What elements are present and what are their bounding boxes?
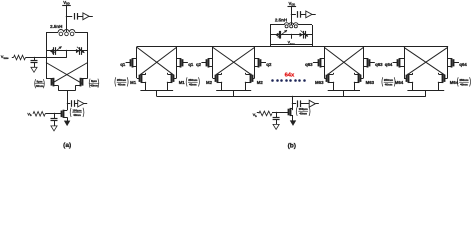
wire V_DD to tank center tap (a) [66, 5, 68, 32]
wire drain column M2 [212, 47, 214, 78]
transistor Q_q63R coupling (gate q63) [369, 59, 371, 66]
ground V_tune bypass (a) [31, 67, 37, 72]
svg-text:q64: q64 [385, 62, 393, 67]
wire cap to lower buffer (a) [74, 103, 78, 105]
transistor Q_q1R coupling (gate q1) [182, 59, 184, 66]
wire to lower coupling cap (b) [293, 103, 296, 105]
wire tail gate (b) [272, 112, 288, 114]
wire drain column M63 [324, 47, 326, 78]
transistor Q_q2L coupling (gate q2) [206, 59, 208, 66]
varactor CV2 (b) [300, 33, 303, 37]
wire lower buffer output (b) [315, 103, 318, 105]
svg-text:8μm: 8μm [91, 79, 97, 83]
wire tank left edge (b) [270, 25, 272, 44]
wire M63R source down [354, 82, 356, 91]
svg-text:M63: M63 [315, 80, 324, 85]
wire M64R source down [438, 82, 440, 91]
ground tail source (b) [290, 121, 295, 126]
wire cross-couple diagonal M64 R-to-L [407, 47, 448, 75]
varactor CV1 (a) [50, 49, 53, 53]
wire M2R drain to cross wire [245, 73, 247, 75]
transistor M64R cross-coupled [444, 75, 446, 82]
wire M64L source down [412, 82, 414, 91]
transistor Q_q2R coupling (gate q2) [260, 59, 262, 66]
wire common source down to tail (a) [67, 91, 69, 111]
wire cross-couple diagonal M63 L-to-R [324, 47, 361, 75]
wire drain column M64 [404, 47, 406, 78]
wire to output cap (b) [292, 14, 296, 16]
svg-text:250nm: 250nm [384, 78, 394, 82]
label size 8um/40nm left (a) [34, 79, 37, 88]
label size 250nm/40nm M1 right [185, 77, 188, 86]
transistor M63L cross-coupled [326, 75, 328, 82]
transistor Q_q64R coupling (gate q64) [453, 59, 455, 66]
capacitor lower coupling (a) [71, 100, 73, 107]
wire M1R drain to cross wire [167, 73, 169, 75]
svg-text:250nm: 250nm [188, 78, 198, 82]
svg-text:2.5nH: 2.5nH [275, 17, 287, 22]
capacitor V_b bypass (a) [54, 113, 56, 115]
wire source bus pair M63 [328, 90, 360, 92]
wire drain column M63' [363, 47, 365, 78]
wire to lower coupling cap (a) [67, 103, 70, 105]
wire buffer output (b) [312, 14, 316, 16]
wire tank right rail (a) [87, 32, 89, 78]
svg-text:(b): (b) [288, 143, 296, 150]
wire pair M64 bus to tail bus [425, 91, 427, 97]
wire M1L drain to cross wire [145, 73, 147, 75]
label size 250nm/40nm M1 left [114, 77, 117, 86]
wire V_DD down (b) [291, 7, 293, 25]
wire varactor row (a) [46, 50, 88, 52]
wire varactor row (b) [270, 34, 312, 36]
wire cap to buffer (a) [78, 16, 83, 18]
svg-text:2.5nH: 2.5nH [50, 24, 62, 29]
wire tank left rail (a) [46, 32, 48, 78]
wire M1L source down [145, 82, 147, 91]
svg-text:q1: q1 [188, 62, 194, 67]
wire drain column M1 [136, 47, 138, 78]
op-amp lower buffer (b) [309, 100, 315, 107]
wire M63L drain to cross wire [333, 73, 335, 75]
svg-text:q64: q64 [459, 62, 467, 67]
wire tank bottom to rail right (b) [312, 44, 314, 47]
svg-text:250nm: 250nm [459, 78, 469, 82]
transistor Q_q63L coupling (gate q63) [318, 59, 320, 66]
op-amp output buffer (b) [306, 11, 312, 18]
svg-text:40nm: 40nm [385, 82, 393, 86]
resistor R_b (a) [33, 112, 45, 117]
svg-text:M2: M2 [257, 80, 264, 85]
svg-text:40nm: 40nm [73, 113, 81, 117]
wire pair M1 bus to tail bus [156, 91, 158, 97]
transistor Q_q64L coupling (gate q64) [397, 59, 399, 66]
wire drain column M64' [447, 47, 449, 78]
resistor R_tune (a) [14, 55, 26, 60]
transistor MA1 left of pair (a) [51, 79, 53, 86]
wire cross-couple diagonal left-to-right (a) [46, 63, 82, 84]
op-amp output buffer (a) [83, 13, 89, 20]
wire M64R drain to cross wire [438, 73, 440, 75]
capacitor lower coupling (b) [297, 100, 299, 107]
capacitor V_b bypass (b) [276, 112, 278, 114]
svg-text:q1: q1 [120, 62, 126, 67]
svg-text:40nm: 40nm [118, 82, 126, 86]
svg-text:q2: q2 [196, 62, 202, 67]
wire drain column M1' [176, 47, 178, 78]
node ellipsis dots (64 cells) [271, 79, 274, 82]
svg-text:M2: M2 [206, 80, 213, 85]
varactor CV2 (a) [76, 49, 79, 53]
wire source bus pair M2 [216, 90, 251, 92]
wire varactor center tap V_tune (b) [291, 35, 293, 39]
wire M64L drain to cross wire [412, 73, 414, 75]
ground V_b bypass (a) [51, 126, 57, 131]
svg-text:M63: M63 [366, 80, 375, 85]
svg-text:250nm: 250nm [117, 78, 127, 82]
wire pair M2 bus to tail bus [233, 91, 235, 97]
wire tail gate (a) [45, 113, 61, 115]
wire cross-couple diagonal M1 R-to-L [140, 47, 177, 75]
wire M2L drain to cross wire [221, 73, 223, 75]
wire M2R source down [245, 82, 247, 91]
svg-text:150μm: 150μm [72, 108, 82, 112]
svg-text:M1: M1 [130, 80, 137, 85]
wire tank top left (b) [270, 24, 284, 26]
wire common tail bus (b) [157, 96, 426, 98]
transistor MA2 right of pair (a) [82, 79, 84, 86]
wire resonator top rail (b) [137, 46, 449, 48]
svg-text:40nm: 40nm [90, 84, 98, 88]
wire source bus pair M1 [140, 90, 173, 92]
wire varactor center tap (a) [66, 51, 68, 58]
label size 250nm/40nm M64 left [381, 77, 384, 86]
wire lower buffer output (a) [84, 103, 87, 105]
wire M1R source down [167, 82, 169, 91]
wire M63L source down [333, 82, 335, 91]
capacitor output coupling (a) [74, 13, 76, 20]
wire tank bottom to rail left (b) [270, 44, 272, 47]
varactor CV1 (b) [276, 33, 279, 37]
svg-text:M1: M1 [179, 80, 186, 85]
wire cap to lower buffer (b) [300, 103, 309, 105]
wire cross-couple diagonal M2 R-to-L [215, 47, 254, 75]
svg-text:150μm: 150μm [299, 107, 309, 111]
wire source bus pair M64 [407, 90, 444, 92]
svg-text:M64: M64 [395, 80, 404, 85]
inductor L 2.5nH (b) [284, 23, 298, 25]
svg-text:64x: 64x [285, 72, 295, 78]
label size 150um/40nm tail (a) [69, 108, 72, 117]
wire tank top right (b) [298, 24, 312, 26]
wire cross-couple diagonal M2 L-to-R [213, 47, 252, 75]
wire V_tune to resistor (a) [12, 57, 14, 59]
wire pair M63 bus to tail bus [343, 91, 345, 97]
wire tank top left (a) [46, 32, 58, 34]
svg-text:40nm: 40nm [299, 112, 307, 116]
inductor L1 2.5nH (a) [58, 30, 75, 33]
label size 8um/40nm right (a) [88, 79, 91, 88]
transistor Q_q1L coupling (gate q1) [130, 59, 132, 66]
svg-text:40nm: 40nm [189, 82, 197, 86]
transistor M64L cross-coupled [406, 75, 408, 82]
svg-text:(a): (a) [63, 142, 71, 149]
wire cross-couple diagonal M64 L-to-R [404, 47, 445, 75]
wire M63R drain to cross wire [354, 73, 356, 75]
wire cross-couple diagonal M1 L-to-R [137, 47, 174, 75]
wire to output coupling cap (a) [67, 16, 73, 18]
transistor M63R cross-coupled [360, 75, 362, 82]
wire tank top right (a) [75, 32, 88, 34]
transistor M1R cross-coupled [173, 75, 175, 82]
transistor M_tail (a) [61, 111, 63, 118]
op-amp lower buffer (a) [78, 100, 84, 107]
wire resistor to gate (b) [257, 112, 259, 114]
wire M2L source down [221, 82, 223, 91]
wire cross-couple diagonal right-to-left (a) [51, 63, 87, 84]
ground V_b bypass (b) [273, 124, 279, 129]
ground tail source (a) [64, 121, 69, 126]
transistor M1L cross-coupled [139, 75, 141, 82]
svg-text:q63: q63 [375, 62, 383, 67]
wire cap to buffer (b) [300, 14, 306, 16]
capacitor output coupling (b) [297, 11, 299, 18]
capacitor C_tune bypass (a) [34, 57, 36, 59]
wire cross-couple diagonal M63 R-to-L [327, 47, 364, 75]
wire drain column M2' [254, 47, 256, 78]
transistor M2R cross-coupled [252, 75, 254, 82]
wire bus down to tail transistor (b) [292, 97, 294, 111]
resistor R_b (b) [259, 111, 272, 116]
svg-text:q63: q63 [305, 62, 313, 67]
wire common source join (a) [59, 90, 76, 92]
wire tank box bottom (b) [270, 44, 312, 46]
label size 150um/40nm tail (b) [295, 107, 298, 116]
svg-text:q2: q2 [266, 62, 272, 67]
svg-text:40nm: 40nm [36, 84, 44, 88]
node V_tune wire (a) [26, 57, 67, 59]
svg-text:40nm: 40nm [460, 82, 468, 86]
label size 250nm/40nm M64 right [456, 77, 459, 86]
svg-text:8μm: 8μm [37, 80, 43, 84]
wire tank right edge (b) [312, 25, 314, 44]
wire buffer output (a) [89, 16, 93, 18]
transistor M_tail (b) [288, 109, 290, 116]
transistor M2L cross-coupled [215, 75, 217, 82]
